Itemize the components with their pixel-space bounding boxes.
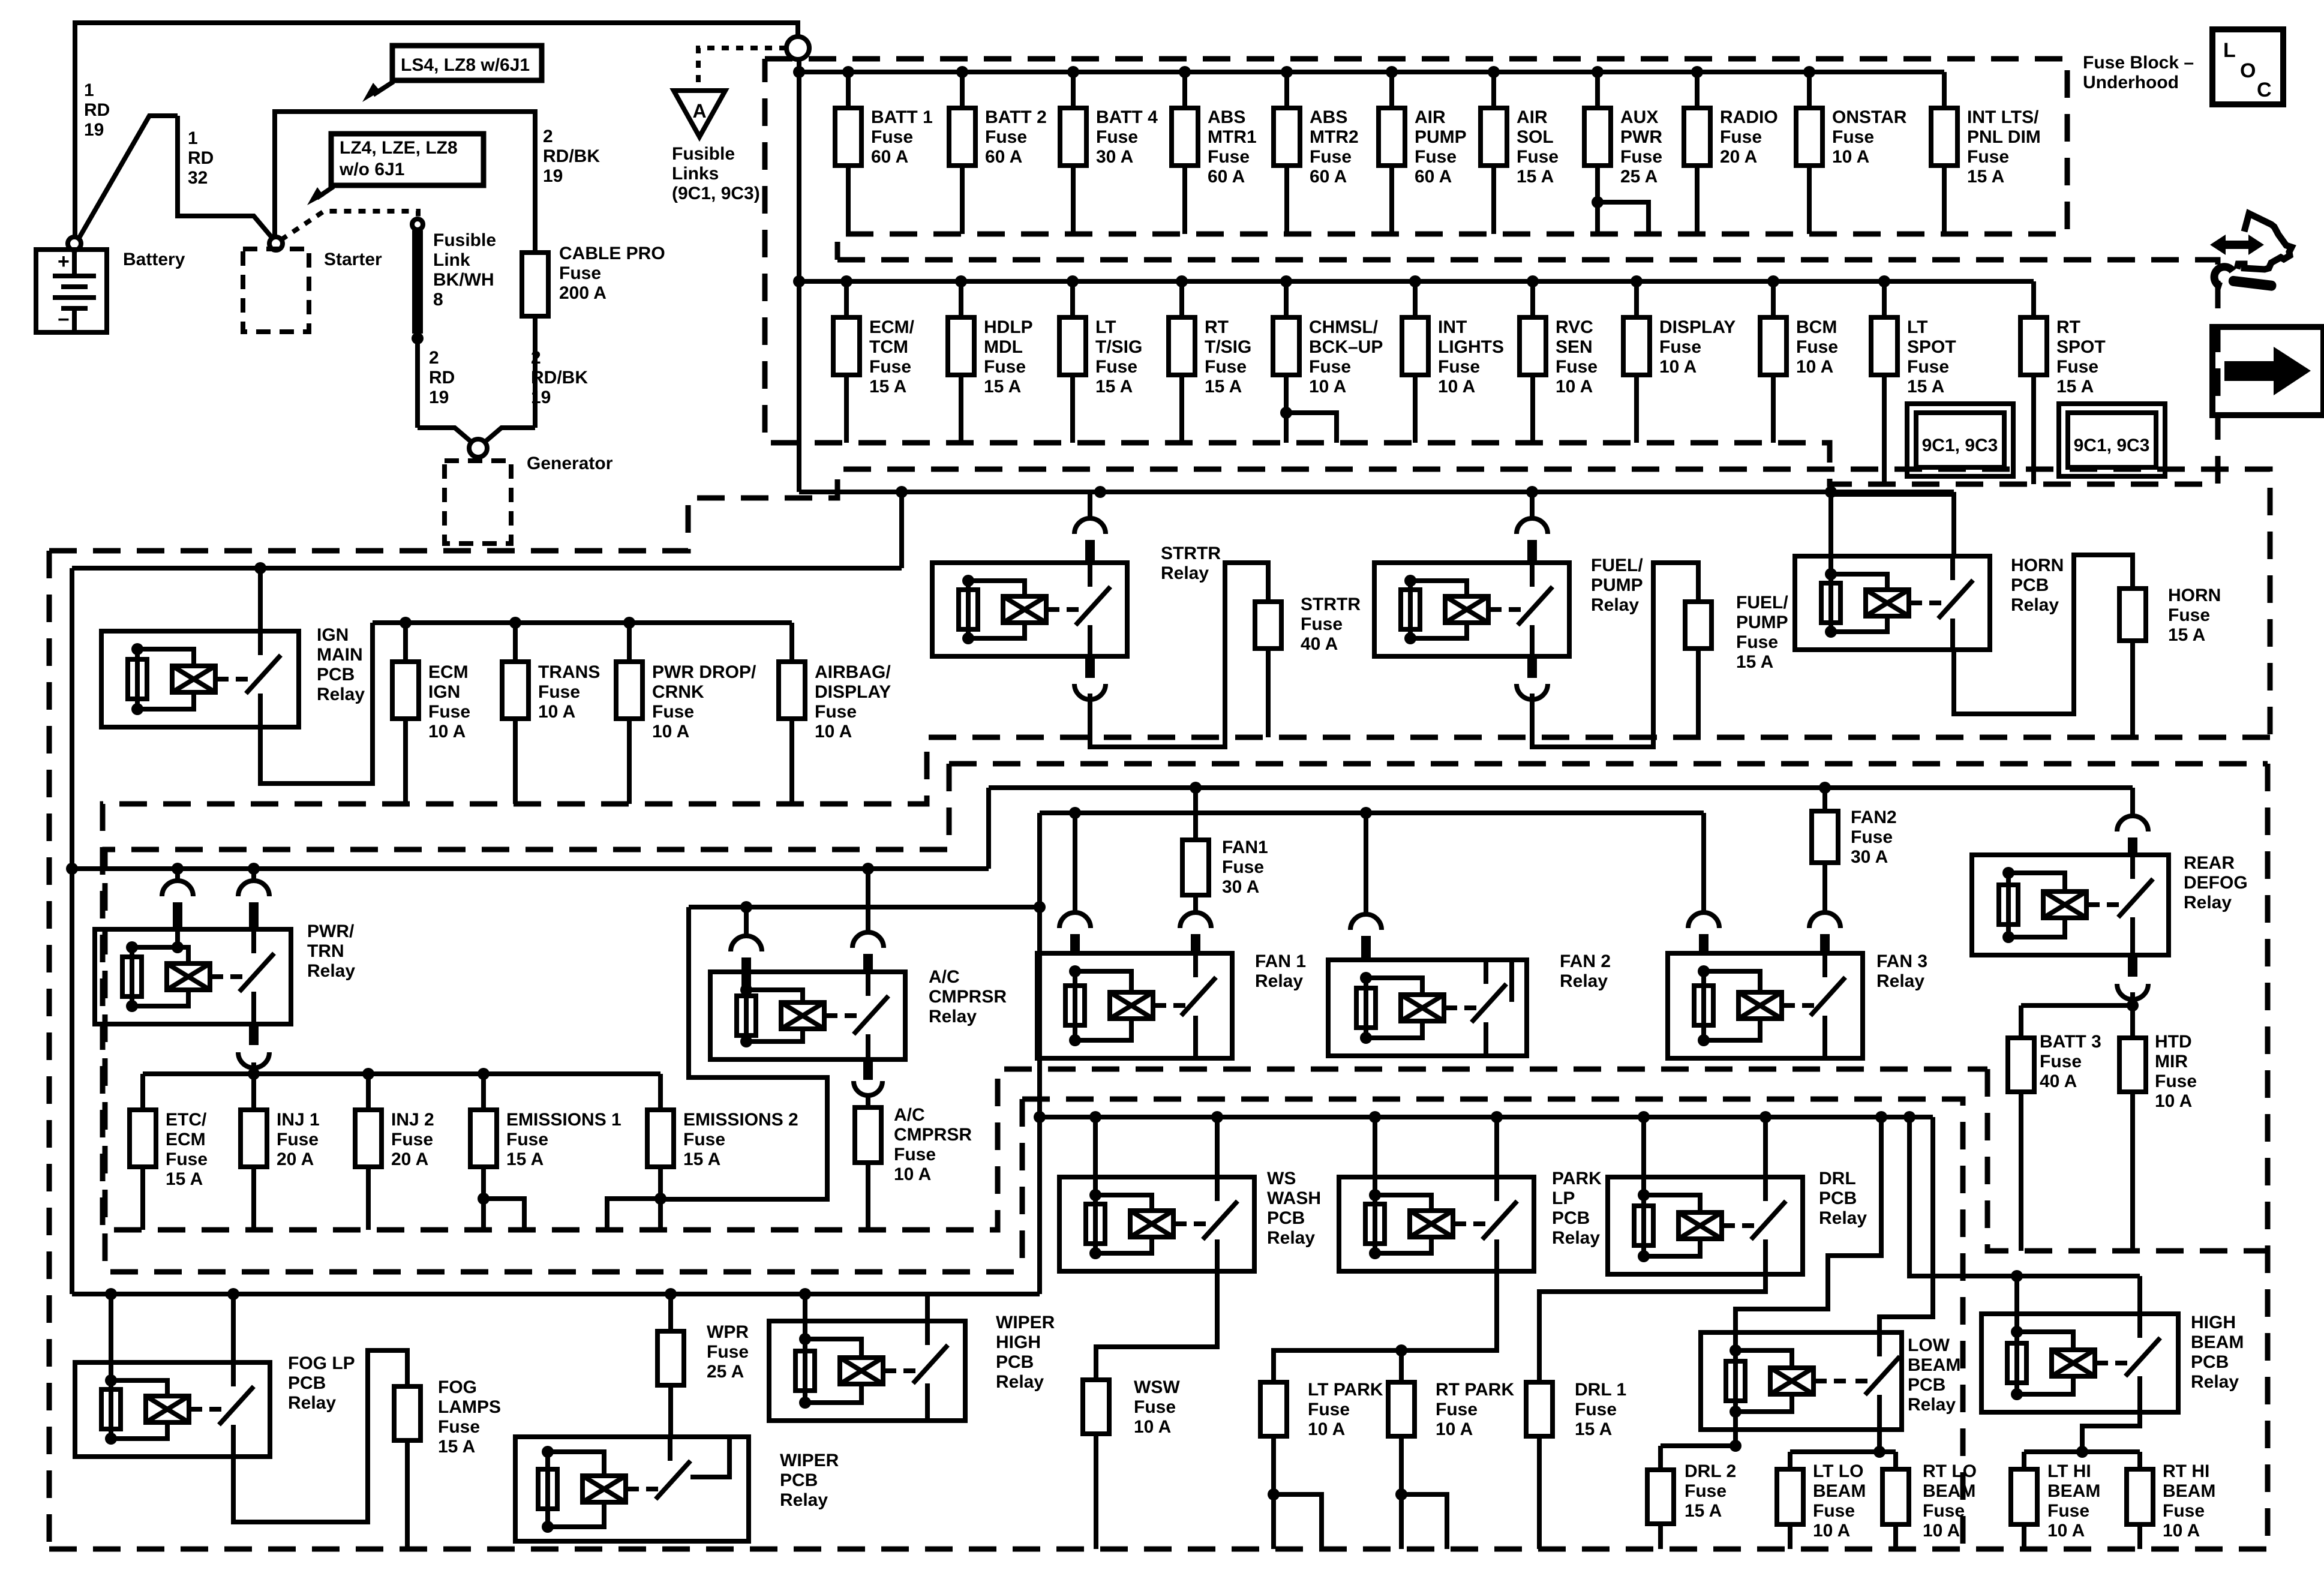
svg-text:10 A: 10 A: [1134, 1417, 1171, 1437]
svg-text:Fuse: Fuse: [871, 127, 913, 147]
fuse DISPLAY 10 A: [1623, 275, 1736, 443]
svg-text:Relay: Relay: [1560, 971, 1608, 991]
svg-text:20 A: 20 A: [391, 1149, 428, 1169]
svg-text:Battery: Battery: [123, 250, 185, 269]
svg-text:(9C1, 9C3): (9C1, 9C3): [672, 184, 760, 203]
svg-text:BCK–UP: BCK–UP: [1309, 337, 1383, 357]
svg-text:Relay: Relay: [307, 961, 355, 981]
bus 947 (IGN feed): [72, 566, 902, 571]
relay FOG LP PCB: [75, 1362, 270, 1457]
dashed FAN band top: [949, 761, 2268, 767]
svg-text:PNL DIM: PNL DIM: [1967, 127, 2041, 147]
dashed BATT3 compartment: [1987, 1069, 2266, 1251]
svg-text:BEAM: BEAM: [2163, 1481, 2215, 1501]
svg-text:Relay: Relay: [1267, 1228, 1315, 1248]
svg-text:PCB: PCB: [288, 1373, 326, 1393]
svg-text:15 A: 15 A: [683, 1149, 720, 1169]
svg-text:A: A: [692, 100, 706, 122]
svg-text:Relay: Relay: [1591, 595, 1639, 615]
wire LOW BEAM coil feed: [1736, 1117, 1881, 1347]
svg-text:FAN 3: FAN 3: [1876, 951, 1927, 971]
svg-text:Fuse: Fuse: [2056, 357, 2098, 377]
svg-text:ABS: ABS: [1310, 107, 1347, 127]
svg-text:15 A: 15 A: [1967, 167, 2004, 187]
wire A/C switch feed: [866, 869, 870, 933]
svg-text:RD/BK: RD/BK: [543, 146, 600, 166]
svg-text:Fuse: Fuse: [166, 1149, 208, 1169]
fuse AUX PWR 25 A: [1584, 66, 1662, 234]
bus ETC fuses (1790): [143, 1071, 660, 1076]
svg-text:A/C: A/C: [929, 967, 960, 987]
svg-text:Relay: Relay: [1876, 971, 1924, 991]
svg-text:Relay: Relay: [1819, 1208, 1867, 1228]
svg-text:10 A: 10 A: [1832, 147, 1869, 167]
fuse BATT 2 60 A: [949, 66, 1047, 234]
svg-text:Fuse: Fuse: [1851, 827, 1893, 847]
svg-text:BEAM: BEAM: [1813, 1481, 1866, 1501]
svg-text:Link: Link: [433, 250, 470, 270]
svg-text:Fuse: Fuse: [1796, 337, 1838, 357]
wire PWR/TRN switch feed: [251, 869, 256, 882]
generator terminal: [469, 439, 487, 457]
svg-text:60 A: 60 A: [1310, 167, 1347, 187]
svg-text:Fuse: Fuse: [1575, 1400, 1617, 1419]
svg-text:Fuse: Fuse: [2168, 605, 2210, 625]
fuse INT LIGHTS 10 A: [1402, 275, 1504, 443]
wire IGN MAIN output to fuse bus: [260, 623, 373, 784]
fuse LT HI BEAM 10 A: [2022, 1452, 2026, 1469]
fuse RT SPOT 15 A: [2020, 281, 2106, 484]
svg-text:19: 19: [531, 388, 551, 407]
LOC box: [2212, 29, 2283, 104]
fuse block row2 dashed outline: [765, 59, 2218, 484]
svg-text:TCM: TCM: [869, 337, 908, 357]
svg-text:15 A: 15 A: [1205, 377, 1242, 397]
svg-text:RD: RD: [429, 368, 455, 388]
svg-text:BATT 2: BATT 2: [985, 107, 1047, 127]
svg-text:30 A: 30 A: [1096, 147, 1133, 167]
svg-text:PCB: PCB: [996, 1352, 1034, 1372]
wire DRL switch feed: [1763, 1117, 1768, 1177]
svg-text:Fuse: Fuse: [1095, 357, 1137, 377]
svg-text:SEN: SEN: [1556, 337, 1593, 357]
svg-text:FUEL/: FUEL/: [1736, 593, 1788, 613]
fuse ABS MTR1 60 A: [1172, 66, 1257, 234]
dashed relay band bottom + hook: [103, 737, 2270, 1230]
wire riser bus D to bus A: [986, 788, 991, 869]
svg-text:15 A: 15 A: [1575, 1419, 1612, 1439]
wire FAN3 coil feed: [1701, 813, 1706, 914]
arrow LZ4: [317, 187, 334, 198]
wire A/C coil bus to EMISSIONS 2 (snake): [660, 907, 827, 1199]
svg-text:CMPRSR: CMPRSR: [894, 1125, 972, 1145]
wire HORN relay output: [1954, 555, 2133, 714]
fuse AIRBAG/: [779, 623, 891, 804]
wire REAR DEFOG switch feed: [2130, 788, 2135, 817]
fuse RT PARK 10 A: [1399, 1350, 1404, 1382]
svg-text:FAN1: FAN1: [1222, 837, 1268, 857]
fuse CHMSL/ BCK–UP 10 A: [1273, 275, 1383, 443]
svg-text:Fuse: Fuse: [1685, 1481, 1727, 1501]
fuse FAN1 30 A: [1193, 788, 1198, 840]
wire FOG LP output: [233, 1350, 407, 1522]
svg-text:RD: RD: [188, 148, 214, 168]
svg-text:Fuse: Fuse: [707, 1342, 749, 1362]
svg-text:Fuse: Fuse: [1720, 127, 1762, 147]
svg-text:ONSTAR: ONSTAR: [1832, 107, 1907, 127]
fuse RT HI BEAM 10 A: [2137, 1452, 2142, 1469]
svg-text:HTD: HTD: [2155, 1032, 2192, 1052]
svg-text:MTR1: MTR1: [1208, 127, 1257, 147]
svg-text:SOL: SOL: [1517, 127, 1554, 147]
dashed underhood block outline (top/right): [49, 469, 2270, 737]
wire WIPER HIGH coil feed: [803, 1294, 807, 1339]
wire FOG LP coil feed: [109, 1294, 113, 1380]
wire HORN relay coil feed: [1828, 492, 1833, 574]
fuse LT SPOT 15 A: [1871, 275, 1956, 484]
wire A/C coil feed: [744, 907, 749, 937]
connector box 9C1 9C3 (LT SPOT): [1907, 404, 2013, 476]
svg-text:15 A: 15 A: [2168, 625, 2205, 645]
svg-text:60 A: 60 A: [1208, 167, 1245, 187]
svg-text:30 A: 30 A: [1222, 877, 1259, 897]
svg-text:PWR: PWR: [1620, 127, 1662, 147]
svg-text:ETC/: ETC/: [166, 1110, 207, 1130]
wire HORN relay switch feed: [1831, 494, 1954, 556]
starter terminal: [269, 237, 283, 250]
svg-text:Relay: Relay: [1255, 971, 1303, 991]
relay HIGH BEAM PCB: [1981, 1314, 2178, 1412]
svg-text:DRL 1: DRL 1: [1575, 1380, 1626, 1400]
fuse INT LTS/ PNL DIM 15 A: [1931, 72, 2041, 234]
wire FAN3 switch feed connector: [1809, 912, 1840, 928]
bus D (1448): [72, 866, 989, 871]
bus C (1862): [1040, 1115, 1933, 1119]
svg-text:WS: WS: [1267, 1169, 1296, 1188]
bus B (1355): [1040, 810, 1704, 815]
svg-text:BCM: BCM: [1796, 317, 1837, 337]
fuse WPR 25 A: [668, 1294, 673, 1331]
svg-text:10 A: 10 A: [894, 1164, 931, 1184]
svg-text:RT LO: RT LO: [1923, 1461, 1977, 1481]
svg-text:Fuse: Fuse: [894, 1145, 936, 1164]
svg-text:PUMP: PUMP: [1591, 575, 1643, 595]
svg-text:+: +: [58, 250, 70, 273]
svg-text:30 A: 30 A: [1851, 847, 1888, 867]
svg-text:Relay: Relay: [2191, 1372, 2239, 1392]
wire PWR/TRN output: [249, 1024, 259, 1045]
svg-text:9C1, 9C3: 9C1, 9C3: [2074, 436, 2150, 455]
wire PWR/TRN coil feed: [175, 869, 180, 882]
svg-text:BEAM: BEAM: [2047, 1481, 2100, 1501]
svg-text:Fuse: Fuse: [1096, 127, 1138, 147]
svg-text:Fusible: Fusible: [433, 230, 496, 250]
svg-text:15 A: 15 A: [869, 377, 906, 397]
svg-text:Relay: Relay: [929, 1007, 977, 1026]
relay WIPER PCB: [515, 1437, 749, 1541]
bus generator junction: [418, 428, 471, 442]
svg-text:IGN: IGN: [428, 682, 460, 702]
relay A/C CMPRSR: [710, 972, 905, 1059]
svg-text:Fuse: Fuse: [1923, 1501, 1965, 1521]
svg-text:Fuse: Fuse: [1659, 337, 1701, 357]
relay FAN 2: [1328, 960, 1527, 1056]
svg-text:INT: INT: [1438, 317, 1467, 337]
battery terminal: [68, 237, 81, 250]
svg-text:FOG LP: FOG LP: [288, 1353, 355, 1373]
svg-text:Fuse: Fuse: [869, 357, 911, 377]
svg-text:Fuse: Fuse: [1967, 147, 2009, 167]
fuse ONSTAR 10 A: [1796, 66, 1907, 234]
svg-text:BATT 1: BATT 1: [871, 107, 933, 127]
relay REAR DEFOG: [1972, 855, 2169, 955]
svg-text:Fuse: Fuse: [2040, 1052, 2082, 1071]
svg-text:FAN 1: FAN 1: [1255, 951, 1306, 971]
svg-text:Fuse: Fuse: [1438, 357, 1480, 377]
svg-text:AUX: AUX: [1620, 107, 1658, 127]
bus HI BEAM fuses: [2024, 1449, 2140, 1454]
svg-text:Fuse: Fuse: [1415, 147, 1457, 167]
svg-text:15 A: 15 A: [1907, 377, 1944, 397]
svg-text:STRTR: STRTR: [1161, 544, 1221, 563]
svg-text:Generator: Generator: [527, 454, 613, 473]
wire fusible link to generator bus: [412, 332, 424, 344]
svg-text:RVC: RVC: [1556, 317, 1593, 337]
svg-text:LT: LT: [1907, 317, 1927, 337]
svg-text:Fuse: Fuse: [1832, 127, 1874, 147]
svg-text:INJ 1: INJ 1: [277, 1110, 320, 1130]
fuse DRL 1 15 A: [1526, 1382, 1553, 1436]
svg-text:Relay: Relay: [288, 1393, 336, 1413]
bus BATT3/HTD MIR: [2021, 1003, 2133, 1008]
svg-text:PCB: PCB: [1908, 1375, 1945, 1395]
fusible links triangle A: [674, 91, 725, 137]
relay WS WASH PCB: [1059, 1177, 1254, 1271]
fuse block row1 dashed outline: [765, 59, 2067, 260]
svg-text:MDL: MDL: [984, 337, 1023, 357]
fuse CABLE PRO 200A: [533, 316, 538, 428]
svg-text:10 A: 10 A: [1796, 357, 1833, 377]
wire STRTR relay coil feed with connector: [1088, 492, 1092, 520]
svg-text:DRL 2: DRL 2: [1685, 1461, 1736, 1481]
bus A (1313): [989, 785, 2133, 790]
svg-text:DRL: DRL: [1819, 1169, 1856, 1188]
svg-text:Fuse: Fuse: [1620, 147, 1662, 167]
svg-text:19: 19: [429, 388, 449, 407]
svg-text:HIGH: HIGH: [996, 1332, 1041, 1352]
relay PWR/TRN: [95, 929, 291, 1024]
fuse AIR PUMP 60 A: [1379, 66, 1467, 234]
svg-text:FUEL/: FUEL/: [1591, 556, 1643, 575]
fuse BCM 10 A: [1760, 275, 1838, 443]
svg-text:INJ 2: INJ 2: [391, 1110, 434, 1130]
svg-text:PWR DROP/: PWR DROP/: [652, 662, 756, 682]
fuse BATT 1 60 A: [835, 66, 933, 234]
svg-text:FAN 2: FAN 2: [1560, 951, 1611, 971]
svg-text:BEAM: BEAM: [1908, 1355, 1960, 1375]
svg-text:RD/BK: RD/BK: [531, 368, 588, 388]
svg-text:AIR: AIR: [1415, 107, 1446, 127]
svg-text:10 A: 10 A: [1438, 377, 1475, 397]
relay PARK LP PCB: [1339, 1177, 1534, 1271]
fuse EMISSIONS 1: [470, 1074, 621, 1230]
svg-text:FOG: FOG: [438, 1377, 477, 1397]
fuse HDLP MDL 15 A: [948, 275, 1033, 443]
relay FAN 1: [1037, 953, 1232, 1058]
svg-text:STRTR: STRTR: [1301, 595, 1361, 614]
bus relay band top (820): [799, 490, 1954, 494]
svg-text:ECM: ECM: [428, 662, 469, 682]
svg-text:15 A: 15 A: [2056, 377, 2094, 397]
svg-text:Fuse: Fuse: [538, 682, 580, 702]
svg-text:60 A: 60 A: [871, 147, 908, 167]
svg-text:Fuse: Fuse: [1208, 147, 1250, 167]
svg-text:MIR: MIR: [2155, 1052, 2188, 1071]
svg-text:9C1, 9C3: 9C1, 9C3: [1922, 436, 1998, 455]
svg-text:AIRBAG/: AIRBAG/: [815, 662, 891, 682]
svg-text:WPR: WPR: [707, 1322, 749, 1342]
svg-text:Fusible: Fusible: [672, 144, 735, 164]
svg-text:ABS: ABS: [1208, 107, 1245, 127]
dashed WS group box: [1022, 1099, 1963, 1549]
svg-text:WSW: WSW: [1134, 1377, 1180, 1397]
svg-text:HIGH: HIGH: [2191, 1313, 2236, 1332]
svg-text:Fuse: Fuse: [984, 357, 1026, 377]
fuse RT LO BEAM 10 A: [1893, 1452, 1898, 1469]
wire LOW BEAM switch feed: [1879, 1117, 1933, 1332]
svg-text:15 A: 15 A: [1517, 167, 1554, 187]
svg-text:LT: LT: [1095, 317, 1116, 337]
svg-text:Relay: Relay: [2184, 893, 2232, 912]
svg-text:Fuse: Fuse: [277, 1130, 319, 1149]
wire PARK LP switch feed: [1494, 1117, 1499, 1177]
svg-text:32: 32: [188, 168, 208, 188]
fuse DRL 2 15 A: [1658, 1446, 1663, 1470]
svg-text:LOW: LOW: [1908, 1335, 1950, 1355]
battery B1: [36, 250, 107, 332]
svg-text:Fuse: Fuse: [2163, 1501, 2205, 1521]
fuse ETC/: [130, 1074, 208, 1230]
dashed bottom edges: [47, 551, 52, 1549]
wire battery positive feed (top): [75, 23, 798, 238]
svg-text:T/SIG: T/SIG: [1095, 337, 1142, 357]
svg-text:WIPER: WIPER: [780, 1451, 839, 1470]
svg-text:T/SIG: T/SIG: [1205, 337, 1251, 357]
fuse WSW 10 A: [1083, 1380, 1109, 1434]
svg-text:Fuse: Fuse: [815, 702, 857, 722]
svg-text:10 A: 10 A: [2155, 1091, 2192, 1111]
fuse LT PARK 10 A: [1260, 1382, 1287, 1436]
svg-text:Fuse: Fuse: [652, 702, 694, 722]
wire FAN1 coil feed: [1073, 813, 1077, 914]
bus A/C coil (1512): [689, 905, 1040, 909]
fuse EMISSIONS 2: [607, 1074, 798, 1230]
svg-text:C: C: [2257, 79, 2272, 101]
svg-text:BK/WH: BK/WH: [433, 270, 494, 290]
svg-text:Relay: Relay: [780, 1490, 828, 1510]
svg-text:PCB: PCB: [317, 665, 355, 685]
svg-text:FAN2: FAN2: [1851, 807, 1897, 827]
wire WS WASH output: [1096, 1271, 1217, 1380]
bus LO BEAM fuses: [1790, 1449, 1896, 1454]
icon arrow box: [2212, 327, 2323, 415]
fuse HTD MIR 10 A: [2130, 1005, 2135, 1038]
svg-text:Fuse: Fuse: [1907, 357, 1949, 377]
svg-text:10 A: 10 A: [1556, 377, 1593, 397]
svg-text:PCB: PCB: [1819, 1188, 1857, 1208]
svg-text:PARK: PARK: [1552, 1169, 1602, 1188]
svg-text:CMPRSR: CMPRSR: [929, 987, 1007, 1007]
svg-text:AIR: AIR: [1517, 107, 1548, 127]
svg-text:10 A: 10 A: [815, 722, 852, 742]
svg-text:PWR/: PWR/: [307, 921, 355, 941]
svg-text:SPOT: SPOT: [1907, 337, 1956, 357]
wire A/C relay output: [863, 1059, 873, 1080]
fuse HORN 15 A: [2119, 589, 2146, 641]
relay DRL PCB: [1608, 1177, 1803, 1274]
svg-text:Fuse: Fuse: [683, 1130, 725, 1149]
svg-text:19: 19: [543, 166, 563, 186]
svg-text:Underhood: Underhood: [2083, 73, 2179, 92]
svg-text:15 A: 15 A: [984, 377, 1021, 397]
wire WS WASH coil feed: [1093, 1117, 1098, 1195]
svg-text:HORN: HORN: [2011, 556, 2064, 575]
svg-text:LT LO: LT LO: [1813, 1461, 1863, 1481]
svg-text:19: 19: [84, 120, 104, 140]
svg-text:IGN: IGN: [317, 625, 349, 645]
svg-text:Fuse: Fuse: [1301, 614, 1343, 634]
starter (dashed box): [243, 249, 309, 332]
svg-text:INT LTS/: INT LTS/: [1967, 107, 2039, 127]
svg-text:1: 1: [84, 80, 94, 100]
svg-text:WASH: WASH: [1267, 1188, 1321, 1208]
svg-text:LT HI: LT HI: [2047, 1461, 2091, 1481]
svg-text:CHMSL/: CHMSL/: [1309, 317, 1379, 337]
wire WIPER HIGH switch feed: [925, 1294, 930, 1321]
fuse LT T/SIG 15 A: [1059, 275, 1142, 443]
svg-text:15 A: 15 A: [1736, 652, 1773, 672]
wire PARK LP output: [1274, 1271, 1497, 1382]
relay FUEL/PUMP: [1374, 563, 1569, 656]
bus FOG/WIPER (2157): [72, 1292, 1040, 1296]
bus HIGH BEAM feed (2127): [1909, 1117, 2140, 1276]
svg-text:10 A: 10 A: [1436, 1419, 1473, 1439]
fuse FUEL/PUMP 15 A: [1685, 602, 1712, 649]
svg-text:L: L: [2223, 39, 2236, 62]
node A junction circle: [786, 37, 809, 59]
svg-text:DISPLAY: DISPLAY: [815, 682, 891, 702]
svg-text:HORN: HORN: [2168, 586, 2221, 605]
svg-text:LT PARK: LT PARK: [1308, 1380, 1383, 1400]
svg-text:20 A: 20 A: [277, 1149, 314, 1169]
bus row1: [799, 70, 1944, 74]
wire dashed starter to fusible link: [281, 211, 418, 240]
svg-text:15 A: 15 A: [506, 1149, 544, 1169]
wire 1 RD 19 battery to starter branch: [79, 116, 178, 239]
svg-text:EMISSIONS 2: EMISSIONS 2: [683, 1110, 798, 1130]
svg-text:PCB: PCB: [1267, 1208, 1305, 1228]
svg-text:10 A: 10 A: [1309, 377, 1346, 397]
svg-text:RT: RT: [1205, 317, 1229, 337]
wire WS WASH switch feed: [1215, 1117, 1220, 1177]
svg-text:2: 2: [543, 127, 553, 146]
svg-text:Relay: Relay: [996, 1372, 1044, 1392]
svg-text:BATT 4: BATT 4: [1096, 107, 1158, 127]
svg-text:15 A: 15 A: [166, 1169, 203, 1189]
svg-text:10 A: 10 A: [2047, 1521, 2085, 1541]
svg-text:8: 8: [433, 290, 443, 310]
svg-text:PCB: PCB: [1552, 1208, 1590, 1228]
